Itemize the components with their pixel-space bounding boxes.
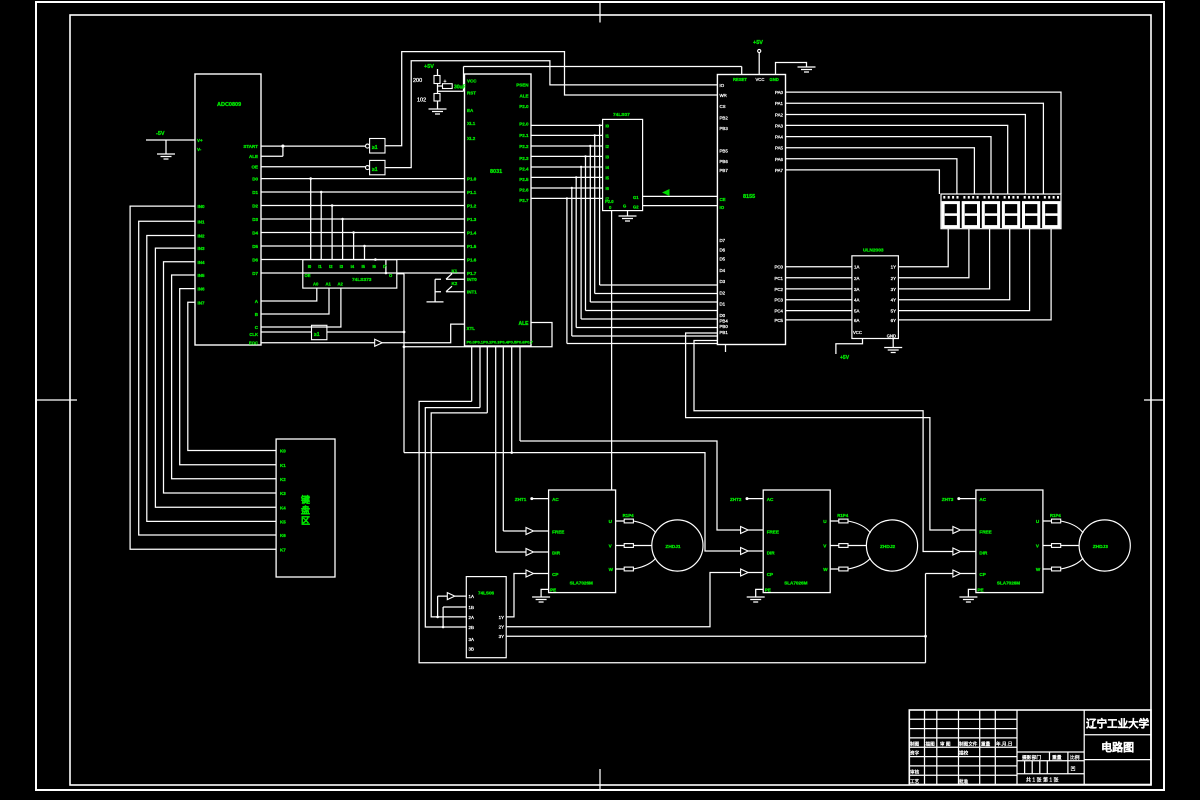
svg-text:W: W	[1036, 567, 1041, 572]
svg-text:D2: D2	[720, 291, 726, 296]
svg-text:102: 102	[417, 98, 426, 104]
svg-text:PA1: PA1	[775, 101, 784, 106]
svg-text:6A: 6A	[854, 318, 859, 323]
svg-text:G: G	[623, 204, 626, 209]
svg-text:200: 200	[413, 78, 422, 84]
svg-text:IN5: IN5	[198, 273, 206, 278]
svg-text:D5: D5	[720, 257, 726, 262]
svg-text:审核: 审核	[910, 769, 920, 776]
svg-text:P2.5: P2.5	[519, 177, 529, 182]
svg-text:VCC: VCC	[467, 79, 477, 84]
svg-text:+5V: +5V	[753, 40, 763, 46]
svg-text:2A: 2A	[854, 276, 859, 281]
svg-text:XL1: XL1	[467, 121, 476, 126]
svg-text:DIR: DIR	[979, 551, 988, 556]
svg-text:CP: CP	[552, 572, 558, 577]
svg-text:3A: 3A	[854, 287, 859, 292]
svg-text:1A: 1A	[469, 594, 474, 599]
svg-text:描校: 描校	[959, 750, 969, 757]
svg-text:≥1: ≥1	[372, 167, 378, 173]
svg-text:2Y: 2Y	[891, 276, 896, 281]
svg-text:D1: D1	[720, 302, 726, 307]
svg-text:R1P4: R1P4	[837, 513, 849, 518]
svg-text:AC: AC	[552, 497, 559, 502]
svg-text:K7: K7	[280, 547, 286, 552]
svg-text:-5V: -5V	[156, 131, 165, 137]
svg-text:V+: V+	[197, 138, 203, 143]
svg-text:年.月.日: 年.月.日	[996, 741, 1012, 748]
svg-text:PB6: PB6	[720, 159, 729, 164]
svg-text:EOC: EOC	[249, 341, 258, 346]
svg-text:2B: 2B	[469, 625, 474, 630]
svg-text:W: W	[823, 567, 828, 572]
svg-text:PC3: PC3	[774, 298, 783, 303]
svg-text:D2: D2	[252, 204, 258, 209]
svg-text:1A: 1A	[854, 265, 859, 270]
svg-text:P2.7: P2.7	[519, 198, 529, 203]
svg-text:4Y: 4Y	[891, 298, 896, 303]
svg-text:XTL: XTL	[467, 326, 476, 331]
svg-text:8031: 8031	[490, 169, 502, 175]
svg-text:K1: K1	[452, 269, 458, 274]
svg-text:P1.3: P1.3	[467, 217, 477, 222]
svg-text:ADC0809: ADC0809	[217, 102, 241, 108]
svg-text:批准: 批准	[959, 778, 969, 785]
svg-text:IN2: IN2	[198, 234, 206, 239]
svg-text:P1.6: P1.6	[467, 258, 477, 263]
svg-text:K6: K6	[280, 533, 286, 538]
svg-text:P1.7: P1.7	[467, 271, 477, 276]
svg-text:ZHT1: ZHT1	[515, 497, 527, 502]
svg-text:资字: 资字	[910, 750, 920, 757]
svg-text:74LS06: 74LS06	[478, 591, 495, 596]
svg-text:重量: 重量	[981, 741, 991, 748]
svg-text:IN1: IN1	[198, 219, 206, 224]
svg-text:G2: G2	[633, 205, 639, 210]
svg-text:P1.4: P1.4	[467, 231, 477, 236]
svg-text:P2.2: P2.2	[519, 144, 529, 149]
svg-text:P2.6: P2.6	[519, 187, 529, 192]
svg-text:K1: K1	[280, 463, 286, 468]
svg-text:ZHT3: ZHT3	[942, 497, 954, 502]
svg-text:D7: D7	[720, 238, 726, 243]
svg-text:SLA7026M: SLA7026M	[570, 581, 593, 586]
svg-text:+5V: +5V	[840, 355, 850, 361]
svg-text:P2.4: P2.4	[519, 167, 529, 172]
svg-text:A0: A0	[313, 282, 319, 287]
svg-text:PE: PE	[550, 588, 556, 593]
svg-text:K2: K2	[280, 477, 286, 482]
svg-text:3A: 3A	[469, 637, 474, 642]
svg-text:WR: WR	[720, 93, 727, 98]
svg-text:SLA7026M: SLA7026M	[997, 581, 1020, 586]
svg-text:制图文件: 制图文件	[959, 741, 978, 748]
svg-text:PB7: PB7	[720, 168, 729, 173]
svg-text:D3: D3	[720, 279, 726, 284]
svg-text:PC4: PC4	[774, 309, 783, 314]
svg-text:P1.2: P1.2	[467, 204, 477, 209]
svg-text:PA5: PA5	[775, 146, 784, 151]
svg-text:INT0: INT0	[467, 277, 477, 282]
svg-text:1Y: 1Y	[891, 265, 896, 270]
svg-text:P2.0: P2.0	[519, 122, 529, 127]
svg-text:PB0: PB0	[720, 324, 729, 329]
svg-text:摄影部门: 摄影部门	[1022, 754, 1041, 761]
svg-text:A2: A2	[338, 282, 344, 287]
svg-text:PA7: PA7	[775, 168, 784, 173]
svg-text:重量: 重量	[1052, 754, 1062, 761]
svg-text:VCC: VCC	[853, 330, 862, 335]
svg-text:VCC: VCC	[756, 77, 765, 82]
svg-text:1B: 1B	[469, 605, 474, 610]
svg-text:PE: PE	[977, 588, 983, 593]
svg-text:3Y: 3Y	[891, 287, 896, 292]
svg-text:PB5: PB5	[720, 149, 729, 154]
svg-text:DIR: DIR	[767, 551, 776, 556]
svg-text:D0: D0	[252, 177, 258, 182]
svg-text:K0: K0	[280, 449, 286, 454]
svg-text:PC5: PC5	[774, 318, 783, 323]
svg-text:D6: D6	[720, 247, 726, 252]
svg-text:FREE: FREE	[552, 530, 564, 535]
svg-text:ALE: ALE	[249, 154, 258, 159]
svg-text:8155: 8155	[743, 194, 755, 200]
svg-text:GND: GND	[770, 77, 779, 82]
svg-text:P1.1: P1.1	[467, 190, 477, 195]
svg-text:PC0: PC0	[774, 265, 783, 270]
svg-text:电路图: 电路图	[1101, 740, 1134, 754]
svg-text:CLK: CLK	[249, 332, 258, 337]
svg-text:ZHDJ3: ZHDJ3	[1093, 544, 1109, 550]
svg-text:P2.3: P2.3	[519, 156, 529, 161]
svg-text:ZHDJ1: ZHDJ1	[665, 544, 681, 550]
svg-text:区: 区	[301, 516, 310, 526]
svg-text:D4: D4	[252, 231, 258, 236]
svg-text:IN0: IN0	[198, 204, 206, 209]
svg-text:P2.0: P2.0	[519, 104, 529, 109]
svg-text:FREE: FREE	[767, 530, 779, 535]
svg-text:审 图: 审 图	[940, 741, 951, 748]
svg-text:D3: D3	[252, 217, 258, 222]
svg-text:74LS07: 74LS07	[613, 112, 630, 118]
svg-text:工艺: 工艺	[910, 779, 920, 784]
svg-text:V-: V-	[197, 147, 202, 152]
svg-text:ZHT2: ZHT2	[730, 497, 742, 502]
svg-text:≥1: ≥1	[372, 145, 378, 151]
svg-text:1Y: 1Y	[499, 615, 504, 620]
svg-text:START: START	[243, 144, 258, 149]
svg-text:30uF: 30uF	[454, 85, 466, 91]
svg-text:5A: 5A	[854, 309, 859, 314]
svg-text:IN4: IN4	[198, 260, 206, 265]
svg-text:共 1 张 第 1 张: 共 1 张 第 1 张	[1026, 777, 1059, 784]
svg-text:ALE: ALE	[519, 321, 530, 327]
svg-text:D4: D4	[720, 268, 726, 273]
svg-text:IN6: IN6	[198, 287, 206, 292]
svg-text:PA6: PA6	[775, 157, 784, 162]
svg-text:3B: 3B	[469, 646, 474, 651]
svg-text:K4: K4	[280, 505, 286, 510]
svg-text:PE: PE	[765, 588, 771, 593]
svg-text:5Y: 5Y	[891, 309, 896, 314]
svg-text:ALE: ALE	[520, 94, 529, 99]
svg-text:DIR: DIR	[552, 551, 561, 556]
svg-text:AC: AC	[767, 497, 774, 502]
svg-text:PB2: PB2	[720, 116, 729, 121]
svg-text:ZHDJ2: ZHDJ2	[880, 544, 896, 550]
svg-text:CP: CP	[767, 572, 773, 577]
svg-text:P0.7: P0.7	[525, 340, 534, 345]
svg-text:2Y: 2Y	[499, 625, 504, 630]
svg-text:键: 键	[300, 494, 311, 505]
svg-text:PC2: PC2	[774, 287, 783, 292]
svg-text:盘: 盘	[301, 505, 310, 516]
svg-text:辽宁工业大学: 辽宁工业大学	[1086, 717, 1149, 730]
svg-text:2A: 2A	[469, 615, 474, 620]
svg-text:A1: A1	[326, 282, 332, 287]
svg-text:P2.0: P2.0	[605, 199, 614, 204]
svg-text:比例: 比例	[1070, 754, 1080, 761]
svg-text:FREE: FREE	[979, 530, 991, 535]
svg-text:制图: 制图	[910, 741, 920, 748]
svg-text:D7: D7	[252, 271, 258, 276]
svg-text:INT1: INT1	[467, 290, 477, 295]
svg-text:PA2: PA2	[775, 113, 784, 118]
svg-text:D0: D0	[720, 313, 726, 318]
svg-text:CE: CE	[720, 197, 726, 202]
svg-text:+: +	[444, 79, 447, 85]
svg-text:RESET: RESET	[733, 77, 747, 82]
svg-text:P1.5: P1.5	[467, 244, 477, 249]
svg-text:PB3: PB3	[720, 126, 729, 131]
svg-text:SLA7026M: SLA7026M	[784, 581, 807, 586]
svg-text:CP: CP	[979, 572, 985, 577]
svg-text:R1P4: R1P4	[623, 513, 635, 518]
svg-text:P1.0: P1.0	[467, 177, 477, 182]
svg-text:EA: EA	[467, 108, 474, 113]
svg-text:PSEN: PSEN	[516, 82, 528, 87]
svg-text:ULN2003: ULN2003	[863, 248, 884, 254]
svg-text:IN3: IN3	[198, 246, 206, 251]
svg-text:IO: IO	[720, 83, 725, 88]
svg-text:D6: D6	[252, 258, 258, 263]
svg-text:P2.1: P2.1	[519, 133, 529, 138]
svg-text:RST: RST	[467, 91, 476, 96]
svg-text:G1: G1	[633, 195, 639, 200]
svg-text:描图: 描图	[926, 741, 936, 748]
svg-text:AC: AC	[979, 497, 986, 502]
svg-text:OE: OE	[251, 165, 258, 170]
svg-text:PA0: PA0	[775, 90, 784, 95]
svg-text:XL2: XL2	[467, 136, 476, 141]
svg-text:PB1: PB1	[720, 330, 729, 335]
svg-text:PB4: PB4	[720, 319, 729, 324]
svg-text:≥1: ≥1	[314, 332, 320, 338]
svg-text:K3: K3	[280, 491, 286, 496]
svg-text:IO: IO	[720, 205, 725, 210]
svg-text:PC1: PC1	[774, 276, 783, 281]
svg-text:6Y: 6Y	[891, 318, 896, 323]
svg-text:4A: 4A	[854, 298, 859, 303]
svg-text:+5V: +5V	[424, 64, 434, 70]
svg-text:D1: D1	[252, 190, 258, 195]
svg-text:W: W	[609, 567, 614, 572]
svg-text:3Y: 3Y	[499, 634, 504, 639]
svg-text:K5: K5	[280, 520, 286, 525]
svg-text:PA3: PA3	[775, 123, 784, 128]
svg-text:PA4: PA4	[775, 135, 784, 140]
svg-text:OE: OE	[305, 273, 311, 278]
svg-text:K2: K2	[452, 281, 458, 286]
svg-text:D5: D5	[252, 244, 258, 249]
svg-text:CS: CS	[720, 104, 726, 109]
svg-text:IN7: IN7	[198, 300, 206, 305]
svg-text:凹: 凹	[1071, 767, 1076, 773]
svg-text:GND: GND	[887, 334, 896, 339]
svg-text:74LS373: 74LS373	[352, 277, 372, 283]
svg-text:R1P4: R1P4	[1050, 513, 1062, 518]
